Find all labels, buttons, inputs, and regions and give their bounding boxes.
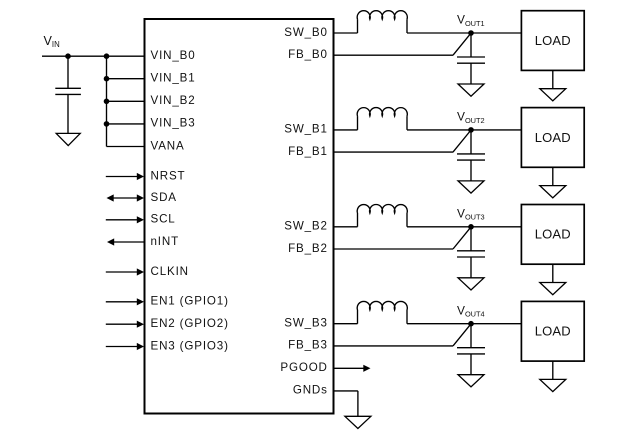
svg-text:FB_B0: FB_B0 (288, 48, 328, 61)
svg-text:PGOOD: PGOOD (280, 361, 327, 374)
svg-text:LOAD: LOAD (535, 33, 571, 48)
svg-text:GNDs: GNDs (293, 384, 328, 397)
svg-text:SDA: SDA (151, 191, 177, 204)
svg-text:LOAD: LOAD (535, 130, 571, 145)
svg-text:FB_B1: FB_B1 (288, 145, 328, 158)
svg-text:CLKIN: CLKIN (151, 265, 189, 278)
svg-text:VIN_B0: VIN_B0 (151, 49, 196, 62)
svg-text:SCL: SCL (151, 213, 176, 226)
svg-text:LOAD: LOAD (535, 227, 571, 242)
svg-text:LOAD: LOAD (535, 324, 571, 339)
svg-text:EN1 (GPIO1): EN1 (GPIO1) (151, 295, 229, 308)
svg-text:NRST: NRST (151, 169, 186, 182)
svg-text:VIN_B3: VIN_B3 (151, 117, 196, 130)
svg-text:SW_B3: SW_B3 (284, 317, 328, 330)
svg-text:VANA: VANA (151, 139, 185, 152)
svg-text:VIN_B2: VIN_B2 (151, 94, 196, 107)
svg-text:FB_B2: FB_B2 (288, 242, 328, 255)
svg-text:FB_B3: FB_B3 (288, 339, 328, 352)
svg-text:SW_B1: SW_B1 (284, 123, 328, 136)
svg-text:SW_B2: SW_B2 (284, 220, 328, 233)
svg-text:VIN_B1: VIN_B1 (151, 72, 196, 85)
svg-text:EN3 (GPIO3): EN3 (GPIO3) (151, 339, 229, 352)
svg-text:SW_B0: SW_B0 (284, 26, 328, 39)
svg-text:nINT: nINT (151, 235, 180, 248)
svg-text:EN2 (GPIO2): EN2 (GPIO2) (151, 317, 229, 330)
